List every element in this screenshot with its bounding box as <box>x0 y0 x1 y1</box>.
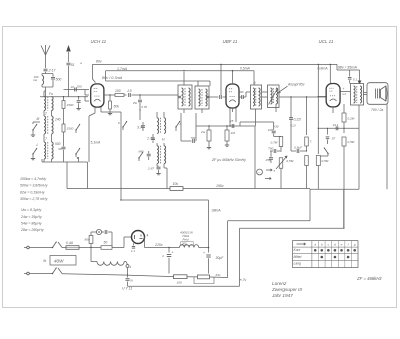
svg-text:a: a <box>314 242 316 246</box>
svg-text:.25: .25 <box>229 119 234 123</box>
svg-text:10: 10 <box>71 85 75 89</box>
wire 98v feed line <box>337 64 360 70</box>
resistor 7.5 AF <box>305 137 312 151</box>
svg-text:M: M <box>37 117 40 121</box>
capacitor antenna series 2x17 <box>44 69 57 73</box>
tube label UCH 11 <box>91 39 107 44</box>
svg-text:98v / 35mA: 98v / 35mA <box>338 66 358 70</box>
svg-text:160: 160 <box>177 281 182 285</box>
label 1.7mA <box>117 67 128 71</box>
coupling transformer T1 Fu <box>44 91 53 111</box>
resistor 0.7M <box>271 137 283 151</box>
svg-text:4: 4 <box>130 265 132 269</box>
svg-text:Mittel: Mittel <box>294 255 302 259</box>
output transformer <box>351 84 364 106</box>
svg-text:0,5mA: 0,5mA <box>240 67 251 71</box>
svg-text:-7v: -7v <box>242 278 247 282</box>
svg-text:10.1: 10.1 <box>333 123 339 127</box>
svg-text:a: a <box>274 169 276 173</box>
capacitor lamp parallel <box>102 230 112 248</box>
svg-text:MW: MW <box>139 150 144 154</box>
svg-text:195v: 195v <box>216 184 224 188</box>
svg-text:10k: 10k <box>173 182 179 186</box>
svg-text:800: 800 <box>85 238 90 242</box>
IF transformer 1 can B <box>195 81 209 109</box>
capacitor 57 grid <box>326 128 336 144</box>
arrow 98v into speaker <box>358 70 362 85</box>
UCH cathode wire <box>85 96 121 162</box>
field coil choke <box>180 245 210 249</box>
svg-text:4: 4 <box>147 234 149 238</box>
wire UCL top pin <box>330 64 331 83</box>
svg-text:6: 6 <box>118 121 120 125</box>
svg-text:500: 500 <box>55 142 61 146</box>
svg-text:Kurz: Kurz <box>294 248 301 252</box>
wire input circuit to coupling coil <box>42 87 53 96</box>
svg-text:UCL 11: UCL 11 <box>319 39 334 44</box>
svg-text:51: 51 <box>71 63 75 67</box>
svg-text:Lorenz: Lorenz <box>272 281 287 286</box>
label UY 11 <box>122 287 132 291</box>
svg-text:5.1: 5.1 <box>353 77 358 81</box>
svg-text:82w = 0,19mHy: 82w = 0,19mHy <box>20 190 45 194</box>
wire UCL grid <box>318 96 326 97</box>
title Lorenz Zwergsuper III Jahr 1947 <box>271 281 303 298</box>
svg-text:L: L <box>37 143 39 147</box>
svg-text:28w = 260µHy: 28w = 260µHy <box>20 228 44 232</box>
wire drop to IF3 <box>253 71 255 85</box>
wire IF1 bottoms <box>181 109 202 141</box>
rectifier tube UY11 <box>132 231 149 244</box>
label field coil <box>180 231 194 246</box>
svg-text:700 / 2a: 700 / 2a <box>371 108 383 112</box>
svg-text:7,: 7, <box>310 140 313 144</box>
wire grid line RF <box>40 96 88 97</box>
svg-text:2: 2 <box>44 112 47 116</box>
svg-text:3.70: 3.70 <box>137 126 144 130</box>
capacitor 0.5uF AF <box>291 119 307 153</box>
svg-text:50: 50 <box>104 241 108 245</box>
wire UCL anode to transformer <box>341 87 351 96</box>
svg-text:Jahr 1947: Jahr 1947 <box>271 293 293 298</box>
tube label UCL 11 <box>319 39 334 44</box>
svg-text:PH: PH <box>133 101 138 105</box>
wire UCH grid <box>85 90 89 96</box>
label 0.8mA UCL <box>318 66 329 70</box>
resistor 1500 RF <box>62 97 74 122</box>
svg-text:Uw = 8,3µHy: Uw = 8,3µHy <box>21 208 41 212</box>
label ZF annotation <box>211 158 246 162</box>
mixer tube UCH11 <box>91 84 104 107</box>
svg-text:30µF: 30µF <box>216 256 225 260</box>
svg-text:+: + <box>203 251 205 255</box>
wire RF section to HT bus <box>79 157 88 189</box>
heater choke winding <box>91 248 126 266</box>
osc coil 2 <box>157 143 166 164</box>
wire to rectifier anode <box>124 237 132 248</box>
svg-text:V30: V30 <box>273 125 279 129</box>
svg-text:7: 7 <box>45 137 47 141</box>
svg-text:Zwergsuper III: Zwergsuper III <box>271 287 303 292</box>
svg-text:1500: 1500 <box>67 103 74 107</box>
output tube UCL11 <box>326 84 340 107</box>
resistor 0.5M grid leak <box>316 156 329 190</box>
labels V30 02l <box>256 104 296 129</box>
svg-text:UBF 11: UBF 11 <box>223 39 238 44</box>
svg-text:d: d <box>334 242 336 246</box>
mains switch upper <box>33 242 66 249</box>
svg-text:0,2l: 0,2l <box>291 124 296 128</box>
svg-text:5,1mA: 5,1mA <box>91 141 102 145</box>
input tuned circuit coil <box>34 74 46 88</box>
label ZF 468kHz <box>356 276 382 281</box>
wave switch S4 right lower <box>75 148 80 159</box>
resistor 0.5M cathode lower <box>342 137 355 229</box>
earth antenna arrow <box>66 45 71 62</box>
label 38mA <box>212 209 222 213</box>
svg-text:80v / 0.3mA: 80v / 0.3mA <box>102 76 123 80</box>
capacitor 3.70 padder <box>137 109 145 131</box>
svg-text:0,2M: 0,2M <box>348 117 355 121</box>
wire rectifier cathode <box>145 237 180 248</box>
svg-text:-34v: -34v <box>215 273 221 277</box>
resistor 10k on bus <box>170 182 183 190</box>
svg-text:30: 30 <box>58 147 62 151</box>
capacitor 100 AF <box>268 128 276 137</box>
svg-text:4: 4 <box>162 254 164 258</box>
svg-text:38mA: 38mA <box>212 209 222 213</box>
svg-text:500: 500 <box>56 78 62 82</box>
svg-text:50t: 50t <box>191 136 195 140</box>
mains terminal lower <box>24 272 33 275</box>
osc switch 6a <box>118 121 127 130</box>
svg-text:0,5M: 0,5M <box>348 140 355 144</box>
capacitor 30uF smoothing <box>203 248 224 274</box>
switch tone <box>318 148 328 157</box>
svg-text:≅: ≅ <box>43 258 46 263</box>
HT line 80v top <box>93 64 338 82</box>
resistor 1M AF lower <box>305 150 309 188</box>
wave switch table <box>293 241 359 268</box>
svg-text:ZF = 468kHz: ZF = 468kHz <box>356 276 382 281</box>
bias line -7v <box>228 189 310 277</box>
svg-text:2w: 2w <box>200 130 206 134</box>
label 80v/0.3mA <box>102 76 123 80</box>
label 5.1mA <box>91 141 102 145</box>
wire det to volume <box>254 126 256 189</box>
label 0.5mA UBF <box>240 67 251 71</box>
wave switch S1 left <box>31 124 37 136</box>
capacitor 25uF <box>265 151 274 163</box>
svg-text:24w = 35µHy: 24w = 35µHy <box>20 215 42 219</box>
svg-text:+: + <box>172 251 174 255</box>
svg-text:54w = 86µHy: 54w = 86µHy <box>21 221 42 225</box>
capacitor 2.87 tracking <box>147 164 161 175</box>
osc switch MW2 <box>138 150 144 162</box>
svg-text:40W: 40W <box>54 259 64 264</box>
svg-text:0,5µF: 0,5µF <box>294 146 303 150</box>
resistor cathode 0.2M <box>342 111 355 133</box>
capacitor .25 coupling <box>109 89 178 97</box>
resistor NTC bias <box>194 273 228 284</box>
wire UCH anode <box>104 94 115 96</box>
svg-text:J.5: J.5 <box>126 89 132 93</box>
mains terminal upper <box>24 246 33 249</box>
mains switch lower <box>33 268 174 277</box>
capacitor .25 det <box>229 119 234 128</box>
label H <box>162 138 165 142</box>
IF amp tube UBF11 <box>226 84 239 108</box>
capacitor heater hum <box>131 243 135 253</box>
capacitor 750 <box>268 147 282 154</box>
svg-text:0,7M: 0,7M <box>271 141 278 145</box>
svg-text:0,5M: 0,5M <box>286 159 293 163</box>
wire IF1 to UBF grid <box>209 95 226 99</box>
IF transformer 1 can A <box>178 70 192 109</box>
wire drop x221 <box>220 64 221 95</box>
power rating box 40W <box>43 256 76 266</box>
svg-text:ZF µs 460kHz 53mHy: ZF µs 460kHz 53mHy <box>211 158 246 162</box>
wave switch S3 left lower <box>31 148 37 160</box>
grid bus right <box>310 188 359 190</box>
osc coil 1 <box>157 112 166 133</box>
wire UBF cathode down <box>230 106 236 126</box>
padding capacitor 30 <box>58 145 66 162</box>
label 80v <box>96 60 102 64</box>
svg-text:×: × <box>80 62 82 66</box>
label -7v <box>240 278 247 282</box>
capacitor tone 10.1 <box>333 123 339 130</box>
screen line 1.7mA <box>106 71 254 76</box>
capacitor RF bypass <box>76 97 80 110</box>
fuse 0.4A <box>66 241 101 249</box>
svg-text:200: 200 <box>76 85 82 89</box>
tone capacitor line <box>318 128 359 129</box>
svg-text:0,5M: 0,5M <box>322 159 329 163</box>
svg-text:0,8mA: 0,8mA <box>318 66 329 70</box>
UCL cathode wire <box>333 104 344 113</box>
svg-text:9: 9 <box>254 81 256 85</box>
svg-text:100: 100 <box>115 89 121 93</box>
svg-text:750: 750 <box>268 147 273 151</box>
antenna <box>41 45 50 68</box>
svg-text:~: ~ <box>258 171 260 175</box>
band coil T3 <box>44 134 53 159</box>
resistor 100 anode <box>115 89 127 97</box>
osc switch A right <box>175 121 181 131</box>
svg-text:0,22l: 0,22l <box>294 118 302 122</box>
cathode return line <box>240 190 344 286</box>
svg-text:Fu: Fu <box>49 92 53 96</box>
capacitor 5.1 HT <box>348 70 357 84</box>
svg-text:300w = 2,78 mHy: 300w = 2,78 mHy <box>20 197 48 201</box>
wave switch S2 right <box>75 124 80 133</box>
wire UBF top <box>232 70 233 84</box>
junction a <box>126 262 132 270</box>
svg-text:500w = 3,8/5mHy: 500w = 3,8/5mHy <box>20 184 48 188</box>
capacitor 5t to chassis <box>126 268 133 287</box>
svg-text:80v: 80v <box>96 60 102 64</box>
capacitor 500 input circuit <box>46 74 62 88</box>
wire transformer secondary down <box>358 105 360 128</box>
svg-text:57: 57 <box>332 137 336 141</box>
svg-text:240: 240 <box>54 118 61 122</box>
svg-text:Anzapf 85v: Anzapf 85v <box>287 82 305 86</box>
wire UBF triode anode line <box>279 96 326 117</box>
resistor 1M detector <box>225 126 235 146</box>
screen feed line <box>106 76 210 86</box>
wire speaker return <box>386 104 388 189</box>
svg-text:e: e <box>341 242 343 246</box>
grid coupling capacitor 200/10 <box>64 85 90 92</box>
wire RF section bottom <box>42 159 88 162</box>
svg-text:Feld: Feld <box>183 238 189 242</box>
resistor 1500 padder <box>62 122 74 145</box>
label Anzapf 85v with arrow <box>278 82 305 94</box>
labels RF coil values <box>37 112 61 148</box>
wire UBF anode to IF3 <box>239 92 250 99</box>
svg-text:50k: 50k <box>114 105 120 109</box>
wire right column <box>318 64 359 190</box>
wire AF takeoff <box>240 122 274 130</box>
wire mixer column <box>120 112 121 201</box>
svg-text:n.2: n.2 <box>342 92 346 96</box>
detector load line <box>196 125 255 126</box>
capacitor 3.70 osc grid <box>133 95 147 110</box>
crossing marker x <box>80 62 82 66</box>
capacitor trimmer side <box>147 151 151 160</box>
phono jack <box>257 169 263 175</box>
legend coil data <box>20 177 48 232</box>
IF transformer 3 trimmer <box>262 85 279 108</box>
svg-text:UCH 11: UCH 11 <box>91 39 107 44</box>
wire S1 to T2 <box>33 122 40 124</box>
svg-text:Lang: Lang <box>294 262 302 266</box>
dial lamp <box>91 229 102 235</box>
capacitor 5t earth <box>67 63 75 97</box>
wire antenna to input circuit <box>45 72 47 74</box>
resistor 50 surge <box>101 241 124 250</box>
capacitor 1.70 <box>147 134 155 143</box>
svg-text:U Y 11: U Y 11 <box>122 287 132 291</box>
svg-text:25µ: 25µ <box>265 158 271 162</box>
phono arrows <box>265 169 276 180</box>
svg-text:0,4A: 0,4A <box>66 241 74 245</box>
svg-text:2·17: 2·17 <box>48 69 57 73</box>
AGC capacitor 50t <box>181 126 196 143</box>
svg-text:1500: 1500 <box>67 127 74 131</box>
svg-text:5t: 5t <box>130 279 133 283</box>
bus2 HT distribution <box>121 200 209 248</box>
svg-text:1,7mA: 1,7mA <box>117 67 128 71</box>
svg-text:215v: 215v <box>154 243 163 247</box>
wire osc column down <box>164 164 167 189</box>
resistor 2M AGC <box>200 126 211 149</box>
volume potentiometer 0.5M <box>276 156 294 189</box>
svg-text:g: g <box>354 242 356 246</box>
svg-text:1.1: 1.1 <box>131 249 135 253</box>
resistor 50k screen <box>108 95 119 115</box>
svg-text:1M: 1M <box>231 131 236 135</box>
svg-text:100: 100 <box>268 128 273 132</box>
label 98v/35mA <box>338 66 358 70</box>
svg-text:100kw = 4,7mHy: 100kw = 4,7mHy <box>20 177 46 181</box>
IF transformer 3 can <box>251 81 262 109</box>
resistor 160 bias <box>174 275 198 285</box>
capacitor 4uF reservoir <box>162 248 174 274</box>
svg-text:b: b <box>321 242 323 246</box>
svg-text:2.87: 2.87 <box>147 167 154 171</box>
svg-text:3.70: 3.70 <box>141 105 147 109</box>
svg-text:H: H <box>162 138 165 142</box>
band coil T2 <box>44 111 53 135</box>
HT bus 195v <box>67 162 310 189</box>
tube label UBF 11 <box>223 39 238 44</box>
label speaker 700/2a <box>371 108 383 112</box>
resistor 800 heater <box>85 236 93 249</box>
chassis bus bottom <box>128 285 240 287</box>
speaker <box>364 83 389 105</box>
capacitor 0.22 coupling <box>289 97 307 135</box>
svg-text:+: + <box>343 87 345 91</box>
